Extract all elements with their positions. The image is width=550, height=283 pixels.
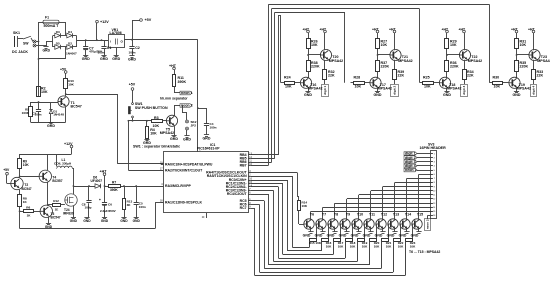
svg-text:10K: 10K bbox=[150, 131, 157, 135]
svg-text:MPSA42: MPSA42 bbox=[329, 59, 343, 63]
svg-text:+HT: +HT bbox=[511, 27, 518, 31]
svg-text:D3: D3 bbox=[56, 30, 60, 34]
svg-text:BC547: BC547 bbox=[51, 216, 61, 220]
svg-text:GRD: GRD bbox=[100, 57, 108, 61]
svg-text:+5V: +5V bbox=[60, 68, 67, 72]
svg-text:GND: GND bbox=[101, 219, 109, 223]
svg-text:BC547: BC547 bbox=[22, 187, 32, 191]
svg-text:GND: GND bbox=[339, 234, 347, 238]
svg-text:GRD: GRD bbox=[128, 57, 136, 61]
svg-text:LA7806: LA7806 bbox=[110, 31, 122, 35]
svg-text:R15 10K: R15 10K bbox=[309, 241, 322, 245]
svg-text:100n: 100n bbox=[210, 126, 217, 130]
svg-text:MPSA42: MPSA42 bbox=[468, 59, 482, 63]
svg-text:MPSA42: MPSA42 bbox=[537, 59, 550, 63]
svg-text:GRD: GRD bbox=[82, 57, 90, 61]
svg-text:22K: 22K bbox=[537, 74, 544, 78]
svg-text:100n: 100n bbox=[35, 112, 42, 116]
svg-text:GND: GND bbox=[351, 234, 359, 238]
svg-text:10K: 10K bbox=[326, 245, 332, 249]
svg-text:10K: 10K bbox=[450, 43, 457, 47]
svg-text:100K: 100K bbox=[22, 111, 30, 115]
svg-text:SK1: SK1 bbox=[13, 31, 20, 35]
svg-text:RA0/C1IN+/ICSPDAT/ULPWU: RA0/C1IN+/ICSPDAT/ULPWU bbox=[165, 162, 213, 166]
svg-text:10K: 10K bbox=[350, 245, 356, 249]
svg-text:10K: 10K bbox=[285, 85, 292, 89]
svg-text:100n: 100n bbox=[129, 50, 136, 54]
svg-text:+HT: +HT bbox=[100, 169, 108, 173]
svg-text:R30: R30 bbox=[493, 76, 500, 80]
svg-text:+HT: +HT bbox=[169, 64, 177, 68]
svg-text:neon 2: neon 2 bbox=[181, 104, 193, 108]
svg-text:1E: 1E bbox=[55, 208, 59, 212]
svg-text:10K: 10K bbox=[355, 85, 362, 89]
svg-text:neon 1: neon 1 bbox=[405, 168, 417, 172]
svg-text:T6: T6 bbox=[310, 213, 314, 217]
svg-text:100n: 100n bbox=[139, 205, 146, 209]
svg-text:22K: 22K bbox=[398, 74, 405, 78]
svg-text:neon 2: neon 2 bbox=[426, 219, 430, 229]
svg-text:+5V: +5V bbox=[145, 18, 152, 22]
svg-text:digit 2: digit 2 bbox=[393, 85, 397, 94]
svg-text:T8: T8 bbox=[334, 213, 338, 217]
svg-text:+: + bbox=[99, 198, 101, 202]
svg-text:R6: R6 bbox=[26, 206, 30, 210]
svg-text:D5: D5 bbox=[56, 42, 60, 46]
svg-text:GND: GND bbox=[304, 93, 312, 97]
svg-text:1N4007: 1N4007 bbox=[66, 52, 77, 56]
svg-text:220K: 220K bbox=[311, 65, 320, 69]
svg-text:GND: GND bbox=[45, 225, 53, 229]
svg-text:+HT: +HT bbox=[459, 27, 466, 31]
svg-text:UF4007: UF4007 bbox=[91, 179, 103, 183]
svg-text:+5V: +5V bbox=[3, 168, 10, 172]
svg-text:MPSA42: MPSA42 bbox=[517, 87, 531, 91]
svg-text:100p: 100p bbox=[85, 205, 92, 209]
svg-text:C1: C1 bbox=[107, 46, 112, 50]
svg-text:500mA T: 500mA T bbox=[44, 24, 60, 28]
svg-text:GND: GND bbox=[443, 93, 451, 97]
svg-text:10K: 10K bbox=[68, 83, 74, 87]
svg-text:GND: GND bbox=[374, 93, 382, 97]
svg-text:16PIN HEADER: 16PIN HEADER bbox=[420, 146, 447, 150]
svg-text:RC7: RC7 bbox=[240, 206, 247, 210]
svg-text:10K: 10K bbox=[410, 245, 416, 249]
svg-text:10K: 10K bbox=[398, 245, 404, 249]
svg-text:10K: 10K bbox=[302, 204, 308, 208]
svg-text:+5V: +5V bbox=[129, 82, 136, 86]
svg-text:MPSA42: MPSA42 bbox=[378, 87, 392, 91]
svg-text:R28: R28 bbox=[354, 76, 361, 80]
svg-text:10K: 10K bbox=[494, 85, 501, 89]
svg-text:R24: R24 bbox=[284, 76, 291, 80]
svg-text:T14: T14 bbox=[405, 213, 411, 217]
svg-text:T15: T15 bbox=[417, 213, 423, 217]
svg-text:GRD: GRD bbox=[183, 137, 191, 141]
svg-text:220K: 220K bbox=[520, 65, 529, 69]
svg-text:+HT: +HT bbox=[372, 27, 379, 31]
svg-text:GND: GND bbox=[133, 219, 141, 223]
svg-text:MPSA42: MPSA42 bbox=[160, 131, 174, 135]
svg-text:390K: 390K bbox=[110, 188, 118, 192]
svg-text:390K: 390K bbox=[178, 80, 187, 84]
svg-text:+HT: +HT bbox=[320, 27, 327, 31]
svg-text:2.2µF/350V: 2.2µF/350V bbox=[100, 209, 116, 213]
svg-text:T11: T11 bbox=[369, 213, 375, 217]
svg-text:BC557: BC557 bbox=[52, 179, 62, 183]
svg-text:10K: 10K bbox=[374, 245, 380, 249]
svg-text:GND: GND bbox=[70, 219, 78, 223]
svg-text:GRD: GRD bbox=[170, 137, 178, 141]
svg-text:GND: GND bbox=[120, 219, 128, 223]
svg-text:JP2: JP2 bbox=[191, 124, 197, 128]
svg-text:IRF830: IRF830 bbox=[63, 211, 74, 215]
svg-text:22K: 22K bbox=[328, 74, 335, 78]
svg-text:digit 3: digit 3 bbox=[462, 85, 466, 94]
svg-text:T6 ... T15 : MPSA42: T6 ... T15 : MPSA42 bbox=[409, 250, 440, 254]
svg-text:1N4148: 1N4148 bbox=[53, 113, 64, 117]
svg-text:10K: 10K bbox=[520, 43, 527, 47]
svg-text:RA1/C12IN0-/ICSPCLK: RA1/C12IN0-/ICSPCLK bbox=[165, 200, 203, 204]
svg-text:R12: R12 bbox=[53, 199, 59, 203]
svg-text:GND: GND bbox=[387, 234, 395, 238]
svg-text:R7: R7 bbox=[112, 181, 116, 185]
svg-text:SW1 : separator blink/static: SW1 : separator blink/static bbox=[133, 145, 180, 149]
svg-text:C2: C2 bbox=[135, 46, 140, 50]
svg-text:100n: 100n bbox=[98, 51, 105, 55]
svg-text:MPSA42: MPSA42 bbox=[398, 59, 412, 63]
svg-text:+12V: +12V bbox=[64, 142, 73, 146]
svg-text:RB7: RB7 bbox=[240, 164, 247, 168]
svg-text:GRD: GRD bbox=[112, 57, 120, 61]
svg-text:COIL 330µH: COIL 330µH bbox=[54, 162, 71, 166]
svg-text:digit 4: digit 4 bbox=[532, 85, 536, 94]
svg-text:GND: GND bbox=[83, 219, 91, 223]
svg-text:GRD: GRD bbox=[47, 124, 55, 128]
svg-text:GND: GND bbox=[327, 234, 335, 238]
svg-text:T7: T7 bbox=[322, 213, 326, 217]
svg-text:SW PUSH BUTTON: SW PUSH BUTTON bbox=[135, 106, 168, 110]
svg-text:T10: T10 bbox=[357, 213, 363, 217]
svg-text:T13: T13 bbox=[393, 213, 399, 217]
svg-text:10K: 10K bbox=[338, 245, 344, 249]
svg-text:GND: GND bbox=[363, 234, 371, 238]
svg-text:220K: 220K bbox=[381, 65, 390, 69]
svg-text:220K: 220K bbox=[450, 65, 459, 69]
svg-text:BC547: BC547 bbox=[71, 105, 82, 109]
svg-text:D4: D4 bbox=[68, 30, 72, 34]
svg-text:GND: GND bbox=[375, 234, 383, 238]
svg-text:C6: C6 bbox=[108, 203, 112, 207]
svg-text:hh.mm separator: hh.mm separator bbox=[160, 97, 188, 101]
svg-text:10K: 10K bbox=[424, 85, 431, 89]
svg-text:MPSA42: MPSA42 bbox=[447, 87, 461, 91]
svg-text:10K: 10K bbox=[23, 163, 30, 167]
svg-text:DC JACK: DC JACK bbox=[12, 50, 28, 54]
svg-text:RA2/T0CKI/INT/C1OUT: RA2/T0CKI/INT/C1OUT bbox=[165, 168, 203, 172]
svg-text:10K: 10K bbox=[41, 90, 48, 94]
svg-text:10K: 10K bbox=[381, 43, 388, 47]
svg-text:GRD: GRD bbox=[43, 49, 51, 53]
svg-text:R25: R25 bbox=[423, 76, 430, 80]
svg-text:RA3/MCLR/VPP: RA3/MCLR/VPP bbox=[165, 184, 192, 188]
svg-text:digit 1: digit 1 bbox=[323, 85, 327, 94]
svg-text:I: I bbox=[110, 39, 111, 43]
svg-text:10K: 10K bbox=[362, 245, 368, 249]
svg-text:SW: SW bbox=[23, 42, 29, 46]
svg-text:D2: D2 bbox=[68, 42, 72, 46]
svg-text:RC4/C2OUT: RC4/C2OUT bbox=[227, 192, 248, 196]
svg-text:22K: 22K bbox=[467, 74, 474, 78]
svg-text:10K: 10K bbox=[311, 43, 318, 47]
svg-text:T12: T12 bbox=[381, 213, 387, 217]
svg-text:+HT: +HT bbox=[528, 27, 535, 31]
svg-text:10K: 10K bbox=[386, 245, 392, 249]
svg-text:MPSA42: MPSA42 bbox=[308, 87, 322, 91]
svg-text:+HT: +HT bbox=[303, 27, 310, 31]
svg-text:GND: GND bbox=[315, 234, 323, 238]
svg-text:GND: GND bbox=[303, 234, 311, 238]
svg-text:+HT: +HT bbox=[389, 27, 396, 31]
svg-text:+HT: +HT bbox=[442, 27, 449, 31]
svg-text:GND: GND bbox=[399, 234, 407, 238]
svg-text:+12V: +12V bbox=[100, 20, 109, 24]
svg-text:GRD: GRD bbox=[203, 136, 211, 140]
svg-text:GND: GND bbox=[513, 93, 521, 97]
svg-text:F1: F1 bbox=[45, 16, 49, 20]
svg-text:neon 1: neon 1 bbox=[181, 91, 193, 95]
svg-text:T9: T9 bbox=[346, 213, 350, 217]
svg-text:GND: GND bbox=[411, 234, 419, 238]
svg-text:R3: R3 bbox=[154, 116, 159, 120]
